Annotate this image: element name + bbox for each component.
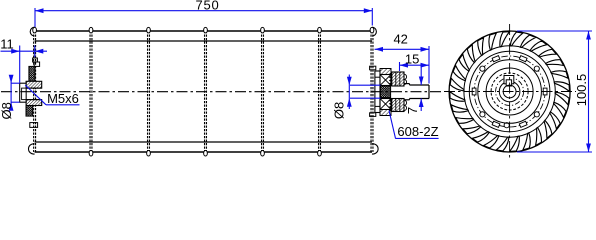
left hub block hatched top — [26, 81, 42, 88]
left stub rect top — [34, 62, 39, 66]
fan wheel end view — [444, 24, 576, 159]
dimension 7 — [405, 67, 424, 114]
wheel horizontal centerline — [444, 91, 576, 93]
drum rib at x=205.5 — [204, 31, 206, 152]
rib bottom loop x=91.0 — [89, 151, 93, 157]
left hub collar top — [33, 58, 38, 62]
drive head right scallops bottom — [404, 100, 407, 110]
svg-text:11: 11 — [0, 37, 14, 52]
drum rib at x=372.0 — [370, 31, 372, 152]
svg-text:100.5: 100.5 — [574, 74, 589, 107]
leader 608-2Z — [389, 111, 439, 140]
drive head teeth top — [390, 73, 392, 86]
rib bottom loop x=148.5 — [147, 151, 151, 157]
svg-text:750: 750 — [195, 0, 219, 13]
svg-text:42: 42 — [393, 32, 407, 47]
rib bottom loop x=319.5 — [318, 151, 322, 157]
drum bottom inner line — [35, 141, 372, 143]
right hub step block — [375, 71, 380, 113]
dimension 11 — [0, 37, 47, 83]
bearing 608-2Z top square — [380, 75, 391, 86]
left hub bore lines — [26, 87, 42, 89]
M5 tapped hole in stub — [22, 88, 27, 100]
svg-text:15: 15 — [405, 52, 419, 67]
rib top loop x=205.5 — [204, 27, 208, 32]
rib top loop x=91.0 — [89, 27, 93, 32]
wheel ring r40.3 — [469, 51, 550, 132]
wheel ring r23.5 — [486, 68, 533, 115]
drum bottom outer line — [35, 151, 372, 153]
drum left bottom end cap — [28, 144, 34, 154]
left end bearing hub assembly — [20, 58, 42, 127]
wheel slots — [543, 88, 547, 95]
drum body outline — [28, 27, 378, 156]
wheel blade inner circle — [464, 46, 555, 137]
drive head teeth bottom — [390, 99, 392, 112]
drum right bottom end cap — [372, 144, 378, 154]
left knurl column top — [29, 66, 35, 81]
wheel blades — [450, 32, 570, 152]
svg-text:608-2Z: 608-2Z — [397, 124, 438, 139]
left knurl column bottom — [26, 106, 33, 117]
shaft end 7mm — [410, 84, 430, 86]
right rib collar top — [370, 66, 376, 70]
dimension 15 — [400, 52, 430, 71]
wheel dash-dot circle r14 — [496, 78, 524, 106]
drum rib at x=319.5 — [318, 31, 320, 152]
svg-text:7: 7 — [405, 107, 420, 114]
wheel ring r31.8 — [478, 60, 542, 124]
main centerline — [1, 91, 443, 93]
left hub collar bottom — [30, 123, 38, 128]
rib bottom loop x=205.5 — [204, 151, 208, 157]
svg-text:M5x6: M5x6 — [47, 91, 79, 106]
drive head right scallops top — [404, 74, 407, 84]
drive head grooved bottom — [392, 99, 404, 112]
wheel dashed circle r18.5 — [491, 73, 528, 110]
dimension 100.5 — [517, 31, 592, 152]
wheel hub circle r10.3 — [499, 81, 520, 102]
wheel vertical centerline — [509, 24, 511, 159]
wheel bolt holes — [534, 66, 539, 71]
rib bottom loop x=262.5 — [261, 151, 265, 157]
wheel outer circle — [449, 31, 570, 152]
bearing 608-2Z top cap hatched — [380, 69, 391, 75]
drum rib at x=148.5 — [147, 31, 149, 152]
right end bearing + drive head assembly — [370, 66, 429, 116]
left shaft stub — [20, 83, 26, 102]
bearing inner race knurled — [380, 86, 390, 98]
dimension diameter 8 right — [332, 75, 381, 120]
wheel bore circle r6.4 — [503, 85, 516, 98]
svg-text:Ø8: Ø8 — [0, 102, 14, 119]
drum top outer line — [35, 30, 372, 32]
drum rib at x=262.5 — [261, 31, 263, 152]
right rib collar bottom — [370, 113, 376, 117]
dimension diameter 8 left — [0, 75, 20, 120]
rib top loop x=319.5 — [318, 27, 322, 32]
leader M5x6 — [25, 85, 79, 106]
dimension 750 — [35, 0, 372, 27]
shaft step 8mm — [404, 83, 410, 85]
svg-text:Ø8: Ø8 — [332, 102, 347, 119]
wheel extra hole at 265 deg — [504, 123, 509, 128]
drive head grooved top — [392, 72, 404, 86]
wheel keyway inner rect — [506, 80, 511, 86]
bearing 608-2Z bottom cap hatched — [380, 110, 391, 116]
dimension 42 — [375, 32, 430, 84]
bearing 608-2Z bottom square — [380, 99, 391, 110]
drum top inner line — [35, 40, 372, 42]
rib top loop x=148.5 — [147, 27, 151, 32]
wheel bolt circle dash-dot — [474, 56, 545, 127]
drum right top end cap — [372, 27, 376, 36]
left hub block hatched bottom — [26, 100, 42, 106]
rib top loop x=262.5 — [261, 27, 265, 32]
wheel keyway outer rect — [504, 76, 514, 84]
drum rib at x=34.6 — [33, 31, 35, 152]
drum left top end cap — [30, 27, 34, 36]
drum rib at x=91.0 — [89, 31, 91, 152]
